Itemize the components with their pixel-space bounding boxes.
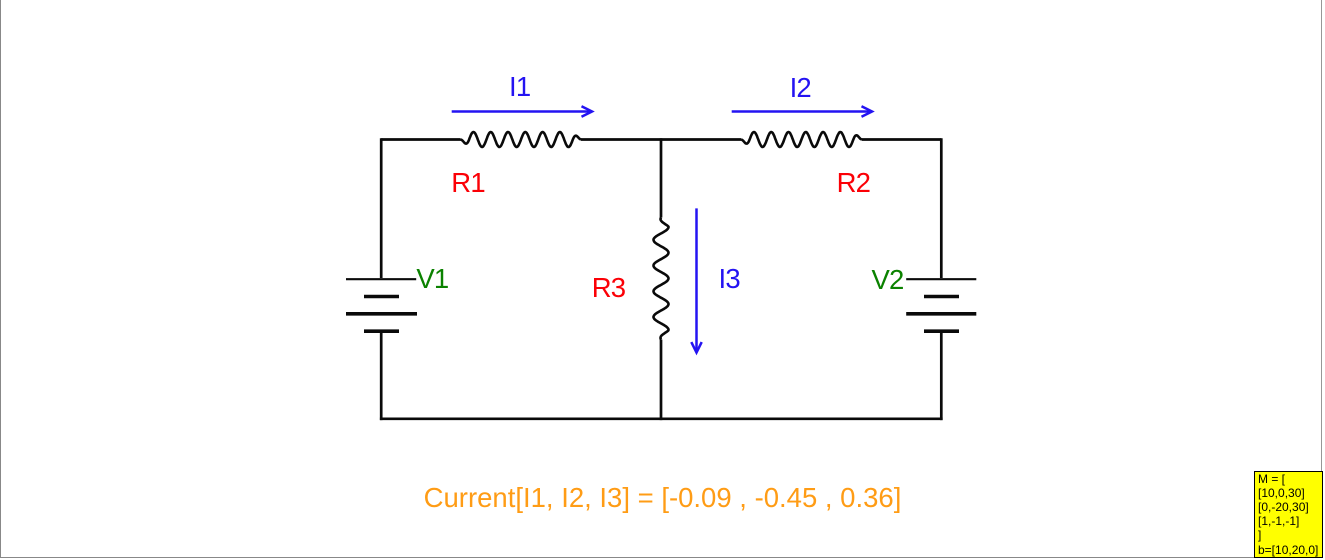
wire bottom [380,417,943,420]
resistor R1 [461,132,582,147]
wire middle vertical lower [660,340,663,421]
current arrow I3 [691,208,701,352]
wire right vertical lower [940,333,943,421]
wire top-left segment [381,138,460,141]
resistor R2 [741,132,862,147]
battery V2 [906,279,976,331]
label V1 [416,265,448,293]
current arrow I2 [732,106,872,116]
battery V1 [346,279,417,331]
label I2 [790,74,811,102]
wire left vertical upper [380,138,383,278]
wire top-right segment [862,138,941,141]
current arrow I1 [452,106,592,116]
resistor R3 [654,218,669,340]
label R2 [837,169,871,197]
label I1 [509,73,530,101]
matrix box [1254,471,1323,558]
label V2 [872,266,904,294]
wire middle vertical upper [660,138,663,217]
result text [0,484,1325,512]
wire top-middle segment [581,138,741,141]
wire left vertical lower [380,333,383,421]
wire right vertical upper [940,138,943,278]
label R3 [592,274,626,302]
label I3 [719,265,740,293]
label R1 [451,169,485,197]
